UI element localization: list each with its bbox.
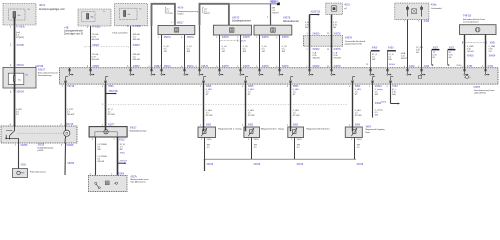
svg-text:SW: SW [97, 149, 100, 151]
svg-text:X9434: X9434 [489, 55, 496, 57]
wire tail into bus bar at x=219.5 [219, 68, 221, 70]
svg-text:X4578: X4578 [345, 36, 353, 39]
svg-text:GR: GR [164, 51, 168, 53]
svg-text:SW-RT: SW-RT [204, 13, 211, 15]
bus bar internal contact at x=240.5 [240, 69, 242, 71]
wire from box L left pin to bar [407, 20, 409, 68]
small module T with round connector [326, 3, 343, 14]
sensor element inside box C [124, 11, 126, 17]
wire tail into bus bar at x=387.5 [387, 68, 389, 70]
wire tail out of bus bar at x=245.5 [245, 82, 247, 85]
svg-text:X754: X754 [392, 85, 398, 88]
wire tail into bus bar at x=161.5 [161, 68, 163, 70]
svg-text:47975: 47975 [473, 86, 480, 89]
svg-text:GE-SW: GE-SW [92, 39, 100, 41]
svg-text:SW-RT: SW-RT [401, 58, 408, 60]
ground drop wire left [204, 159, 206, 171]
wire tail into bus bar at x=240.5 [240, 68, 242, 70]
svg-text:RT[SW]: RT[SW] [16, 37, 24, 39]
wire from box C to distribution bar [130, 26, 132, 68]
svg-text:ra (smartphone): ra (smartphone) [463, 21, 479, 24]
component box C inner [120, 8, 138, 19]
wire X1 through Trennstelle to bar [309, 15, 311, 68]
svg-text:X450: X450 [388, 46, 394, 49]
Trennstelle separation connector box [303, 36, 342, 47]
bus bar internal contact at x=259.5 [259, 69, 261, 71]
svg-text:X4575: X4575 [222, 36, 230, 39]
svg-text:X4500: X4500 [312, 48, 320, 51]
svg-text:K-H10b: K-H10b [133, 25, 142, 28]
svg-text:klein: klein [366, 132, 371, 134]
wire tail into bus bar at x=279.5 [279, 68, 281, 70]
svg-text:X4545: X4545 [207, 164, 214, 166]
svg-text:X4575: X4575 [243, 36, 251, 39]
wire module pin 1 to distribution bar at x=259.5 [259, 35, 261, 68]
ground rail under valves [204, 158, 356, 160]
bus bar internal contact at x=387.5 [387, 69, 389, 71]
svg-text:X9017: X9017 [177, 21, 185, 24]
bus bar internal contact lower at x=390.5 [390, 80, 392, 82]
svg-text:K-H10c: K-H10c [92, 26, 101, 29]
bus bar internal contact at x=69.5 [69, 69, 71, 71]
wire module pin 1 to distribution bar at x=161.5 [161, 35, 163, 68]
bus bar internal contact at x=485.5 [485, 69, 487, 71]
solenoid valve box at x=345.3 [345, 127, 362, 138]
svg-text:X4578: X4578 [334, 32, 342, 35]
svg-text:x: x [84, 47, 85, 49]
branch wire down to sensor module M2 [270, 4, 272, 25]
sensor box G [13, 169, 28, 178]
svg-text:X4506: X4506 [389, 64, 396, 66]
svg-text:X450: X450 [372, 46, 378, 49]
wire tail into bus bar at x=69.5 [69, 68, 71, 70]
svg-text:K-H10c: K-H10c [17, 26, 26, 29]
shield bracket symbol inside D1 [164, 7, 167, 13]
svg-text:X855: X855 [206, 85, 212, 88]
svg-text:T49*1B: T49*1B [463, 15, 472, 18]
svg-text:X855: X855 [293, 85, 299, 88]
camera module M3 [460, 25, 497, 35]
bus bar internal contact at x=464.5 [464, 69, 466, 71]
wire tail into bus bar at x=421.5 [421, 68, 423, 70]
svg-text:36c: 36c [127, 14, 130, 16]
thick supply wire loop D2 [200, 4, 229, 26]
solenoid valve box at x=198.0 [198, 127, 216, 138]
svg-text:x: x [128, 47, 129, 49]
svg-text:Leitungsverbinder: Leitungsverbinder [64, 30, 83, 33]
svg-text:X4545: X4545 [297, 164, 304, 166]
svg-text:X4576: X4576 [282, 36, 290, 39]
wire segment into F [105, 127, 107, 130]
svg-text:RT-SW: RT-SW [293, 115, 300, 117]
svg-text:GE-SW: GE-SW [92, 59, 100, 61]
svg-text:SW: SW [372, 59, 375, 61]
thick supply wire loop D1 [152, 4, 175, 26]
svg-text:SW: SW [375, 94, 378, 96]
connector element inside M3 [475, 27, 480, 32]
sensor module M0 [158, 26, 195, 35]
wire F right pin to ground distributor H [117, 137, 119, 175]
svg-text:RT-SW: RT-SW [108, 114, 115, 116]
svg-text:X507a: X507a [187, 36, 195, 39]
svg-text:X4544: X4544 [375, 85, 383, 88]
svg-text:X255: X255 [21, 165, 27, 167]
solenoid valve box at x=287.8 [288, 127, 304, 138]
bus bar internal contact lower at x=65.5 [65, 80, 67, 82]
svg-text:SW-GE: SW-GE [133, 39, 141, 41]
svg-text:SW: SW [187, 51, 190, 53]
wire bar down with arrow X754 [390, 84, 392, 103]
wire tail into bus bar at x=485.5 [485, 68, 487, 70]
twisted pair tie below M1 [220, 40, 238, 42]
bus bar internal contact at x=161.5 [161, 69, 163, 71]
svg-text:X9017: X9017 [130, 126, 138, 129]
wire tail into bus bar at x=90.5 [90, 68, 92, 70]
svg-text:X855: X855 [248, 85, 254, 88]
svg-text:Fahrstufensensor: Fahrstufensensor [30, 170, 46, 173]
svg-text:X9255: X9255 [66, 144, 74, 147]
svg-text:SW: SW [375, 115, 378, 117]
svg-text:hinten: hinten [178, 13, 185, 16]
svg-text:X6718: X6718 [67, 85, 75, 88]
svg-text:SW-GN: SW-GN [313, 58, 321, 60]
svg-text:RT-SW: RT-SW [206, 115, 213, 117]
svg-text:X554: X554 [381, 101, 387, 103]
svg-text:X4545: X4545 [254, 164, 261, 166]
bus bar splice symbol a-b [465, 75, 468, 78]
svg-text:434a: 434a [431, 3, 437, 6]
svg-text:Servolenkung: Servolenkung [38, 74, 52, 77]
supply wire from D2 to junction 4000 [229, 3, 279, 5]
svg-text:X7006: X7006 [17, 44, 25, 47]
wire bar to pump box E pin4 [65, 84, 67, 126]
long dashed shield line over valve wires [106, 103, 349, 105]
svg-text:X552: X552 [108, 85, 114, 88]
svg-text:Aktivlenksensor: Aktivlenksensor [283, 20, 299, 23]
ground block symbol inside H [105, 181, 109, 185]
svg-text:X854: X854 [366, 126, 372, 128]
svg-text:4257b: 4257b [131, 176, 138, 178]
svg-text:X855: X855 [254, 139, 260, 141]
ground wire below valve at x=294.5 [294, 138, 296, 160]
wire bar to motor box F [105, 84, 107, 127]
wire tail out of bus bar at x=290.5 [290, 82, 292, 85]
svg-text:Trennstelle Steckverb.: Trennstelle Steckverb. [345, 40, 366, 43]
wire tail into bus bar at x=464.5 [464, 68, 466, 70]
svg-text:X4500: X4500 [312, 32, 320, 35]
connector circle inside F [104, 130, 108, 134]
wire tail into bus bar at x=130.5 [130, 68, 132, 70]
svg-text:b: b [470, 77, 471, 79]
svg-text:+4B: +4B [64, 26, 69, 29]
wire from box A down through relay K9617 to pump box [14, 18, 16, 127]
mechanical dashed link inside E [18, 132, 63, 134]
svg-text:X507a: X507a [164, 36, 172, 39]
shield bracket symbol inside D2 [202, 7, 205, 13]
wire tail into bus bar at x=151.5 [151, 68, 153, 70]
svg-text:SW: SW [243, 51, 246, 53]
svg-text:Magnetventil 2. Gang: Magnetventil 2. Gang [261, 127, 285, 130]
bus bar internal contact at x=407.5 [407, 69, 409, 71]
svg-text:links (Motorraum): links (Motorraum) [131, 181, 146, 184]
sensor element inside box B [87, 14, 89, 20]
pin symbol right inside L [421, 6, 423, 17]
svg-text:X5004: X5004 [17, 91, 25, 94]
wire tail into bus bar at x=309.5 [309, 68, 311, 70]
svg-text:Magnetventil Dimmen: Magnetventil Dimmen [307, 127, 331, 130]
bus bar internal contact at x=219.5 [219, 69, 221, 71]
wire module pin 2 to distribution bar at x=279.5 [279, 35, 281, 68]
svg-text:X4578: X4578 [334, 48, 342, 51]
relay coil element [13, 76, 15, 82]
wire from box B to distribution bar [90, 26, 92, 68]
svg-text:Hauptspannungsversorg.: Hauptspannungsversorg. [178, 10, 199, 13]
wire tail into bus bar at x=370.5 [370, 68, 372, 70]
sensor module M1 [213, 25, 251, 35]
svg-text:X981: X981 [120, 153, 126, 155]
svg-text:X434: X434 [424, 20, 430, 23]
wire E to sensor box G [18, 143, 20, 169]
wire tail out of bus bar at x=65.5 [65, 82, 67, 85]
svg-text:X854: X854 [355, 125, 361, 127]
component box C outer [115, 4, 148, 26]
svg-text:RT-SW: RT-SW [166, 13, 172, 15]
element inside M1 [229, 28, 234, 32]
switch contact inside E [14, 126, 16, 131]
wire E down right [64, 143, 67, 175]
bus bar internal contact at x=279.5 [279, 69, 281, 71]
bus bar internal contact lower at x=372.5 [372, 80, 374, 82]
svg-text:4001: 4001 [344, 3, 350, 6]
wire bar to valve at x=203.5 [203, 84, 205, 131]
svg-text:X9255: X9255 [38, 144, 45, 146]
svg-text:X68*1B: X68*1B [120, 160, 128, 162]
bus bar internal contact at x=90.5 [90, 69, 92, 71]
wire segment through relay [14, 67, 16, 76]
bus bar internal contact lower at x=290.5 [290, 80, 292, 82]
svg-text:X552*1B: X552*1B [109, 91, 119, 93]
wire F left pin to ground distributor H [95, 137, 97, 175]
element inside L [412, 9, 417, 14]
svg-text:SW: SW [282, 51, 285, 53]
svg-text:SW-GN: SW-GN [97, 161, 104, 163]
svg-text:X4576: X4576 [262, 36, 270, 39]
svg-text:467b: 467b [178, 5, 184, 9]
wire tail into bus bar at x=259.5 [259, 68, 261, 70]
distribution bus bar A40 [59, 68, 498, 84]
svg-text:4000: 4000 [271, 1, 277, 4]
svg-text:X855: X855 [297, 139, 303, 141]
component box A (Zentrierungstraeger vorn) outer [3, 4, 36, 26]
svg-text:OR-GN: OR-GN [467, 51, 474, 53]
wire tail into bus bar at x=331.5 [331, 68, 333, 70]
pump motor box F [89, 127, 127, 137]
direction arrow on wire F [106, 93, 116, 95]
svg-text:µC: µC [344, 8, 347, 10]
junction terminal 4000 [277, 3, 280, 6]
solenoid valve box at x=243.9 [244, 127, 260, 138]
wire tail into bus bar at x=199.5 [199, 68, 201, 70]
svg-text:Radialkolbenpumpe: Radialkolbenpumpe [130, 131, 148, 133]
steering pump box E [1, 126, 77, 143]
svg-text:X4567: X4567 [133, 44, 141, 47]
svg-text:X6718: X6718 [66, 123, 74, 126]
svg-text:X942: X942 [490, 42, 496, 44]
wire tail out of bus bar at x=372.5 [372, 82, 374, 85]
svg-text:X855: X855 [206, 125, 212, 127]
svg-text:X5004: X5004 [17, 64, 25, 67]
svg-text:A185*1B: A185*1B [311, 10, 321, 13]
svg-text:X855: X855 [248, 125, 254, 127]
ground wire below valve at x=354.5 [354, 138, 356, 160]
svg-text:Magnetventil Kupplung: Magnetventil Kupplung [366, 128, 386, 131]
bus bar internal contact at x=130.5 [130, 69, 132, 71]
pin symbol left inside L [407, 6, 409, 17]
ground wire below valve at x=204.5 [204, 138, 206, 160]
svg-text:GR: GR [222, 51, 226, 53]
svg-text:Schaltwippensensor: Schaltwippensensor [232, 20, 251, 23]
svg-text:RT-SW: RT-SW [355, 115, 362, 117]
twisted pair dashed tie [463, 42, 487, 44]
wire tail out of bus bar at x=352.5 [352, 82, 354, 85]
branch arrow from wire F right [118, 162, 126, 164]
bus bar internal contact lower at x=105.5 [105, 80, 107, 82]
inner frame inside F [95, 132, 117, 137]
svg-text:X854: X854 [355, 85, 361, 88]
bus bar internal contact at x=309.5 [309, 69, 311, 71]
wire bar down X4544 [372, 84, 374, 117]
wire tail into bus bar at x=407.5 [407, 68, 409, 70]
element inside M0 [174, 28, 179, 32]
bus bar internal contact lower at x=245.5 [245, 80, 247, 82]
bus bar internal contact lower at x=352.5 [352, 80, 354, 82]
svg-text:GR: GR [262, 51, 266, 53]
svg-text:Lichtmodul: Lichtmodul [431, 7, 442, 10]
svg-text:7c: 7c [103, 11, 105, 13]
wire from box L right pin to bar [421, 20, 423, 68]
svg-text:Zentrierungsträger vorn: Zentrierungsträger vorn [39, 8, 66, 11]
svg-text:6-Fach-Lichtwellenl.: 6-Fach-Lichtwellenl. [112, 31, 128, 34]
svg-text:X9258: X9258 [67, 163, 74, 165]
signal arrow A185*1B [310, 14, 319, 16]
svg-text:36s: 36s [18, 80, 21, 82]
svg-text:A40*2B: A40*2B [35, 65, 44, 68]
svg-text:programmiert (VS): programmiert (VS) [345, 42, 362, 45]
svg-text:SW: SW [305, 27, 308, 29]
sensor element inside box A [13, 12, 16, 19]
svg-text:GN]: GN] [392, 94, 396, 96]
wire bar to valve at x=290.5 [290, 84, 292, 131]
svg-text:SW-RT: SW-RT [272, 13, 279, 15]
svg-text:RT-SW: RT-SW [248, 115, 255, 117]
bus bar internal contact at x=331.5 [331, 69, 333, 71]
component box L (Lichtmodul) [395, 3, 429, 20]
wire tail out of bus bar at x=105.5 [105, 82, 107, 85]
component box B inner [82, 12, 96, 22]
svg-text:K9617: K9617 [38, 68, 46, 71]
motor symbol inside E [64, 130, 70, 136]
wire tail into bus bar at x=184.5 [184, 68, 186, 70]
wire M3 right pin to bar [485, 35, 487, 68]
bus bar internal contact at x=199.5 [199, 69, 201, 71]
sensor module M2 [254, 25, 292, 35]
switch output connection inside E [5, 138, 7, 140]
mechanical dashed link between wires B and C [86, 46, 128, 48]
wire bar to valve at x=352.5 [352, 84, 354, 131]
wire module pin 4 to distribution bar at x=184.5 [184, 35, 186, 68]
wire bar to valve at x=245.5 [245, 84, 247, 131]
component box B outer [78, 9, 111, 26]
svg-text:X4545: X4545 [357, 164, 364, 166]
bus bar internal contact at x=421.5 [421, 69, 423, 71]
bus bar internal contact lower at x=203.5 [203, 80, 205, 82]
contact right inside H [115, 182, 117, 184]
svg-text:X4575: X4575 [232, 16, 240, 19]
relay inner white box [8, 73, 23, 84]
svg-text:GN-SW: GN-SW [334, 58, 341, 60]
wire module pin 1 to distribution bar at x=219.5 [219, 35, 221, 68]
wire X2 from module T through Trennstelle to bar [331, 15, 333, 68]
svg-text:p7056: p7056 [38, 150, 45, 152]
wire tail out of bus bar at x=203.5 [203, 82, 205, 85]
bus bar internal contact at x=151.5 [151, 69, 153, 71]
svg-text:GR-SW: GR-SW [67, 114, 74, 116]
svg-text:Sekundärschlüssel-Came: Sekundärschlüssel-Came [463, 18, 486, 21]
svg-text:X9426: X9426 [467, 55, 474, 57]
wire M3 left pin to bar [464, 35, 466, 68]
svg-text:467a: 467a [39, 3, 46, 7]
svg-text:X9017: X9017 [119, 139, 126, 141]
svg-text:X4576: X4576 [283, 17, 291, 20]
svg-text:X855: X855 [293, 125, 299, 127]
relay K9617 box [3, 67, 36, 88]
svg-text:X854: X854 [357, 139, 363, 141]
bus bar small junction block [418, 76, 421, 79]
svg-text:X855: X855 [207, 139, 213, 141]
contact symbols inside H [95, 182, 97, 184]
svg-text:Zentr.träger vorn 30: Zentr.träger vorn 30 [64, 32, 84, 35]
ground wire below valve at x=251.5 [251, 138, 253, 160]
ground distributor box H [88, 175, 127, 191]
svg-text:stelle (4R15): stelle (4R15) [474, 91, 486, 94]
component box A inner [9, 9, 26, 20]
wire tail out of bus bar at x=390.5 [390, 82, 392, 85]
wire module pin 2 to distribution bar at x=240.5 [240, 35, 242, 68]
svg-text:Relais elektromechanische: Relais elektromechanische [38, 72, 59, 75]
bus bar internal contact at x=184.5 [184, 69, 186, 71]
svg-text:SW: SW [388, 59, 391, 61]
element inside M2 [271, 28, 276, 32]
bus bar internal contact at x=370.5 [370, 69, 372, 71]
svg-text:SW-GE: SW-GE [133, 59, 141, 61]
svg-text:X9255: X9255 [20, 144, 28, 147]
svg-text:Magnetventil 1. Gang: Magnetventil 1. Gang [218, 127, 242, 130]
